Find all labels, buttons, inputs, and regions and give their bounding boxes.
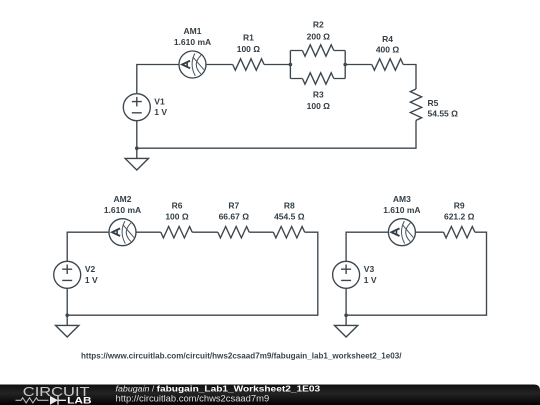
svg-text:http://circuitlab.com/chws2csa: http://circuitlab.com/chws2csaad7m9 bbox=[116, 394, 270, 404]
ammeter AM2 bbox=[109, 219, 136, 246]
node: left junction of parallel block bbox=[289, 63, 293, 67]
svg-text:1 V: 1 V bbox=[154, 107, 167, 117]
svg-text:454.5 Ω: 454.5 Ω bbox=[274, 212, 305, 222]
wire: bottom-left circuit loop bbox=[67, 232, 318, 315]
resistor R5 bbox=[410, 89, 421, 120]
node: ground junction bottom-right bbox=[344, 313, 348, 317]
svg-text:R8: R8 bbox=[284, 200, 295, 210]
svg-text:R6: R6 bbox=[172, 200, 183, 210]
resistor R4 bbox=[372, 59, 403, 70]
ground bbox=[56, 315, 79, 337]
svg-text:1 V: 1 V bbox=[85, 275, 98, 285]
resistor R8 bbox=[273, 227, 304, 238]
wire: parallel block frame bbox=[290, 51, 345, 79]
svg-text:54.55 Ω: 54.55 Ω bbox=[428, 108, 459, 118]
svg-text:100 Ω: 100 Ω bbox=[307, 101, 331, 111]
resistor R6 bbox=[161, 227, 192, 238]
svg-text:1.610 mA: 1.610 mA bbox=[383, 205, 420, 215]
svg-text:R5: R5 bbox=[428, 98, 439, 108]
svg-text:AM2: AM2 bbox=[114, 194, 132, 204]
svg-text:R1: R1 bbox=[243, 33, 254, 43]
svg-text:V1: V1 bbox=[154, 96, 165, 106]
svg-text:621.2 Ω: 621.2 Ω bbox=[444, 212, 475, 222]
svg-text:R4: R4 bbox=[382, 34, 393, 44]
svg-text:V2: V2 bbox=[85, 264, 96, 274]
node: right junction of parallel block bbox=[343, 63, 347, 67]
svg-text:R2: R2 bbox=[313, 20, 324, 30]
svg-text:R9: R9 bbox=[454, 200, 465, 210]
svg-text:1.610 mA: 1.610 mA bbox=[104, 205, 141, 215]
logo diode bbox=[50, 396, 58, 405]
resistor R7 bbox=[218, 227, 249, 238]
svg-text:AM3: AM3 bbox=[393, 194, 411, 204]
wire: top circuit V1 left branch + top rail bbox=[137, 65, 233, 149]
ammeter AM3 bbox=[388, 219, 415, 246]
resistor R1 bbox=[233, 59, 264, 70]
svg-text:400 Ω: 400 Ω bbox=[376, 44, 400, 54]
svg-text:100 Ω: 100 Ω bbox=[237, 44, 261, 54]
svg-text:V3: V3 bbox=[364, 264, 375, 274]
svg-text:https://www.circuitlab.com/cir: https://www.circuitlab.com/circuit/hws2c… bbox=[81, 351, 402, 360]
logo resistor zigzag bbox=[16, 398, 49, 403]
svg-text:100 Ω: 100 Ω bbox=[165, 212, 189, 222]
node: ground junction bottom-left bbox=[65, 313, 69, 317]
wire: bottom-right circuit loop bbox=[346, 232, 486, 315]
resistor R3 bbox=[302, 73, 333, 84]
resistor R9 bbox=[444, 227, 475, 238]
svg-text:200 Ω: 200 Ω bbox=[307, 31, 331, 41]
voltage source V3 bbox=[333, 261, 360, 288]
ground bbox=[125, 148, 148, 170]
svg-text:R7: R7 bbox=[228, 200, 239, 210]
svg-text:AM1: AM1 bbox=[184, 26, 202, 36]
svg-text:fabugain / fabugain_Lab1_Works: fabugain / fabugain_Lab1_Worksheet2_1E03 bbox=[116, 384, 321, 394]
voltage source V2 bbox=[54, 261, 81, 288]
svg-text:R3: R3 bbox=[313, 90, 324, 100]
svg-text:1.610 mA: 1.610 mA bbox=[174, 37, 211, 47]
voltage source V1 bbox=[123, 94, 150, 121]
ammeter AM1 bbox=[179, 51, 206, 78]
wire: parallel block to R4, corner, bottom rail bbox=[137, 65, 416, 149]
ground bbox=[334, 315, 357, 337]
svg-text:1 V: 1 V bbox=[364, 275, 377, 285]
node: ground junction top circuit bbox=[135, 146, 139, 150]
svg-text:LAB: LAB bbox=[67, 395, 92, 405]
wire: R1 to parallel block bbox=[264, 64, 290, 66]
svg-text:66.67 Ω: 66.67 Ω bbox=[219, 212, 250, 222]
resistor R2 bbox=[302, 45, 333, 56]
